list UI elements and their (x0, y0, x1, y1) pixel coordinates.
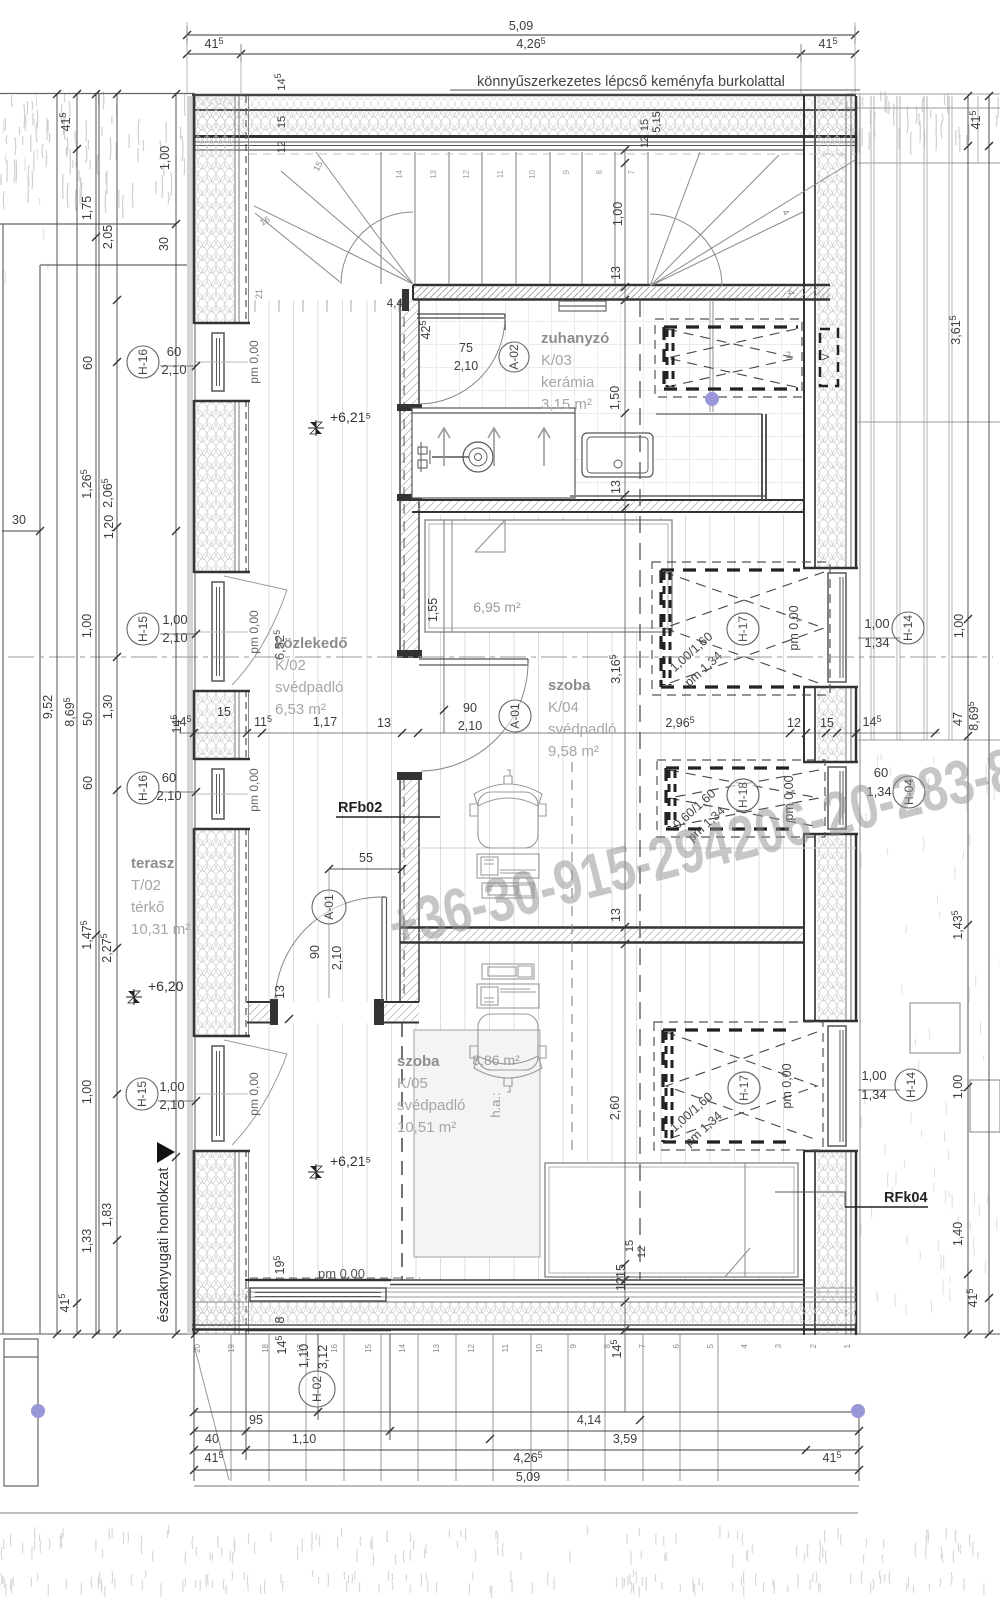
svg-text:1,83: 1,83 (100, 1203, 114, 1227)
svg-text:1,00: 1,00 (951, 1075, 965, 1099)
svg-text:18: 18 (261, 1343, 270, 1352)
labels window left a (160, 344, 200, 377)
level +6,21 szoba K05 (308, 1153, 371, 1180)
svg-text:13: 13 (273, 985, 287, 999)
svg-text:3,15 m²: 3,15 m² (541, 396, 592, 413)
right dim chain lines (968, 96, 989, 1334)
svg-text:10: 10 (535, 1343, 544, 1352)
labels window left b (160, 612, 200, 645)
ground streaks right side (860, 754, 1000, 1315)
window H-15 lower-left (194, 1036, 287, 1151)
svg-text:könnyűszerkezetes lépcső kemén: könnyűszerkezetes lépcső keményfa burkol… (477, 74, 785, 90)
svg-text:H-15: H-15 (136, 616, 150, 642)
svg-text:pm 0,00: pm 0,00 (247, 768, 261, 812)
svg-text:9: 9 (562, 169, 571, 174)
svg-text:RFb02: RFb02 (338, 800, 382, 816)
svg-text:15: 15 (624, 1240, 636, 1252)
door A-01 lower leaf and swing (275, 897, 387, 1002)
stair treads (381, 152, 648, 284)
bottom dim texts (205, 1413, 842, 1484)
svg-text:15: 15 (820, 716, 834, 730)
svg-text:2,10: 2,10 (159, 1097, 184, 1112)
svg-text:30: 30 (12, 513, 26, 527)
svg-text:2,05: 2,05 (101, 225, 115, 249)
wall shower-room bottom (412, 500, 803, 512)
wall layer dims top-left (273, 73, 288, 153)
svg-text:15: 15 (614, 1264, 628, 1278)
door A-01 upper leaf and swing (419, 659, 528, 771)
ground line 2 (0, 1512, 858, 1514)
circle H-16 b (127, 772, 159, 804)
svg-text:30: 30 (157, 237, 171, 251)
svg-text:zuhanyzó: zuhanyzó (541, 330, 609, 347)
svg-text:pm 0,00: pm 0,00 (780, 1063, 794, 1108)
svg-text:12: 12 (276, 141, 288, 153)
dim labels H-02 area (272, 1256, 624, 1370)
svg-text:1,40: 1,40 (951, 1222, 965, 1246)
svg-text:9,52: 9,52 (41, 695, 55, 719)
svg-text:1,00: 1,00 (861, 1068, 886, 1083)
labels window left c (156, 770, 200, 803)
lower-left planter rect (4, 1339, 38, 1486)
svg-text:V: V (820, 353, 832, 361)
svg-text:K/04: K/04 (548, 699, 579, 716)
svg-text:40: 40 (205, 1432, 219, 1446)
svg-text:14: 14 (395, 169, 404, 178)
terrace outline left outer (0, 224, 176, 1334)
svg-text:4: 4 (740, 1343, 749, 1348)
bathroom tile floor (420, 300, 803, 500)
dim 42/75/210 door A-02 (387, 298, 478, 373)
svg-text:8: 8 (273, 1316, 287, 1323)
right terrace planks (860, 96, 952, 1334)
svg-text:6,53 m²: 6,53 m² (275, 701, 326, 718)
svg-text:1,00: 1,00 (159, 1079, 184, 1094)
stair landing strip (413, 285, 830, 300)
svg-text:16: 16 (330, 1343, 339, 1352)
dim 55 door lower (325, 851, 406, 873)
labels window right a (858, 616, 900, 650)
svg-text:4,14: 4,14 (577, 1413, 601, 1427)
ground streaks far-left top (2, 94, 48, 284)
svg-text:térkő: térkő (131, 899, 164, 916)
skylight H-17 room K05 (654, 1022, 823, 1150)
circle H-14 b (895, 1069, 927, 1101)
svg-text:4,47: 4,47 (387, 298, 409, 310)
svg-text:12: 12 (639, 136, 651, 148)
niche under landing (559, 301, 606, 311)
shower area (570, 414, 766, 500)
circle H-16 a (127, 346, 159, 378)
svg-text:1,75: 1,75 (80, 196, 94, 220)
svg-text:5: 5 (706, 1343, 715, 1348)
door A-01 upper jambs (397, 650, 422, 780)
dim 90/210 door upper (440, 520, 482, 733)
svg-text:7: 7 (638, 1343, 647, 1348)
svg-text:1,20: 1,20 (102, 515, 116, 539)
window H-16 lower-left (194, 759, 250, 829)
svg-text:1,33: 1,33 (80, 1229, 94, 1253)
svg-text:H-17: H-17 (737, 1075, 751, 1101)
svg-text:terasz: terasz (131, 855, 174, 872)
svg-text:szoba: szoba (548, 677, 591, 694)
dim 30 small left (2, 513, 44, 535)
label terasz (131, 855, 190, 938)
svg-text:5,09: 5,09 (509, 19, 533, 33)
corridor wall (397, 300, 422, 1002)
dim line 5,09 top (183, 19, 859, 44)
svg-text:21: 21 (254, 289, 264, 299)
room K/04 floorboards (420, 515, 803, 927)
svg-text:13: 13 (609, 266, 623, 280)
svg-text:12: 12 (467, 1343, 476, 1352)
svg-text:1,00: 1,00 (158, 146, 172, 170)
svg-text:2,10: 2,10 (156, 788, 181, 803)
stair winder numbers (258, 159, 796, 295)
left dim chain lines (57, 94, 195, 1334)
svg-text:H-02: H-02 (310, 1376, 324, 1402)
svg-text:6: 6 (672, 1343, 681, 1348)
axis dash-dot line (8, 656, 993, 658)
bottom wall (192, 1280, 856, 1330)
window small right (803, 762, 858, 834)
wardrobe K/05 (414, 1030, 540, 1257)
svg-text:K/05: K/05 (397, 1075, 428, 1092)
desk and chair K/05 (470, 964, 546, 1092)
ground line across (0, 1333, 1000, 1335)
sink unit 2 (582, 433, 653, 477)
corridor end wall right part (270, 999, 419, 1025)
bottom deck edge line (194, 1485, 859, 1487)
skylight over stair (655, 319, 802, 397)
svg-text:pm 0,00: pm 0,00 (787, 605, 801, 650)
right terrace furniture rect 2 (970, 1080, 1000, 1132)
svg-text:1,50: 1,50 (608, 386, 622, 410)
svg-text:1,34: 1,34 (861, 1087, 886, 1102)
svg-text:15: 15 (217, 705, 231, 719)
svg-text:11: 11 (496, 169, 505, 178)
svg-text:7: 7 (627, 169, 636, 174)
interior dim line y733 (179, 729, 940, 737)
svg-text:1,10: 1,10 (297, 1344, 311, 1368)
svg-text:55: 55 (359, 851, 373, 865)
label szoba K04 (548, 677, 616, 760)
wall layer dims bottom (624, 1240, 648, 1258)
bottom deck planks (194, 1334, 718, 1481)
roofline dash K/05 (401, 1023, 403, 1280)
ground texture bottom strip (1, 1525, 984, 1598)
svg-text:1,00: 1,00 (611, 202, 625, 226)
svg-text:10: 10 (528, 169, 537, 178)
labels window right b (866, 765, 891, 799)
svg-text:60: 60 (167, 344, 181, 359)
svg-text:13: 13 (609, 480, 623, 494)
svg-text:RFk04: RFk04 (884, 1190, 928, 1206)
window H-02 bottom (245, 1278, 420, 1330)
svg-text:60: 60 (81, 776, 95, 790)
circle H-15 b (126, 1078, 158, 1110)
svg-text:H-14: H-14 (901, 615, 915, 641)
svg-text:A-02: A-02 (507, 344, 521, 370)
left dim ticks (53, 90, 199, 1338)
svg-text:svédpadló: svédpadló (397, 1097, 465, 1114)
svg-text:2,10: 2,10 (162, 630, 187, 645)
svg-text:8: 8 (595, 169, 604, 174)
svg-text:T/02: T/02 (131, 877, 161, 894)
bottom dim lines (194, 1334, 859, 1481)
svg-text:13: 13 (429, 169, 438, 178)
corner bottom-left wall (194, 1150, 246, 1330)
svg-text:1,34: 1,34 (864, 635, 889, 650)
mid wall between desks (400, 928, 803, 943)
svg-text:szoba: szoba (397, 1053, 440, 1070)
svg-text:pm 0,00: pm 0,00 (247, 610, 261, 654)
skylight outside part upper (820, 329, 838, 386)
svg-text:2: 2 (786, 350, 791, 360)
window H-14 upper-right (803, 568, 858, 687)
svg-text:95: 95 (249, 1413, 263, 1427)
svg-text:4: 4 (786, 290, 796, 295)
stair tread numbers (395, 169, 636, 178)
circle H-04 (893, 776, 925, 808)
beam line below landing (710, 300, 713, 412)
svg-text:2,10: 2,10 (458, 719, 482, 733)
svg-text:H-16: H-16 (136, 349, 150, 375)
room K/05 floorboards (420, 944, 803, 1022)
svg-text:90: 90 (308, 945, 322, 959)
svg-text:15: 15 (364, 1343, 373, 1352)
interior dim texts y733 (173, 714, 882, 730)
svg-text:északnyugati homlokzat: északnyugati homlokzat (156, 1168, 172, 1323)
vanity counter (412, 408, 575, 498)
vent arrows (438, 428, 550, 466)
svg-text:1,00: 1,00 (952, 614, 966, 638)
svg-text:60: 60 (162, 770, 176, 785)
svg-text:8,86 m²: 8,86 m² (472, 1052, 520, 1068)
svg-text:svédpadló: svédpadló (548, 721, 616, 738)
headroom dash line x572 (571, 762, 573, 1150)
label kozlekedo (275, 635, 348, 718)
svg-text:2,10: 2,10 (330, 946, 344, 970)
right terrace furniture square (910, 1003, 960, 1053)
label top note (450, 74, 860, 90)
svg-text:50: 50 (81, 712, 95, 726)
svg-text:12: 12 (636, 1246, 648, 1258)
under-stair flight below strip (255, 300, 399, 312)
bottom deck plank numbers (193, 1343, 852, 1352)
bed K/04 (425, 520, 672, 632)
section dash line x640 (639, 300, 641, 1280)
window H-14 lower-right (803, 1021, 858, 1151)
svg-text:47: 47 (951, 712, 965, 726)
svg-text:75: 75 (459, 341, 473, 355)
svg-text:10,31 m²: 10,31 m² (131, 921, 190, 938)
label RFk04 (775, 1190, 928, 1207)
svg-text:11: 11 (501, 1343, 510, 1352)
svg-text:pm 0,00: pm 0,00 (247, 1072, 261, 1116)
svg-text:13: 13 (377, 716, 391, 730)
svg-text:10,51 m²: 10,51 m² (397, 1119, 456, 1136)
room faint line y848 (400, 847, 856, 849)
circle A-01 lower (312, 890, 346, 924)
svg-text:1,30: 1,30 (101, 695, 115, 719)
right terrace top planks (871, 96, 989, 163)
center dim texts (608, 202, 628, 1291)
svg-text:3,12: 3,12 (316, 1345, 330, 1369)
wall layer dims top-right (639, 111, 663, 148)
circle H-02 (299, 1371, 335, 1407)
bottom dim ticks (190, 1408, 863, 1474)
desk and chair K/04 (470, 770, 546, 898)
level +6,21 corridor (308, 409, 371, 436)
center dim chain (621, 146, 629, 1412)
svg-text:2,60: 2,60 (608, 1096, 622, 1120)
dim line 41-426-41 top (183, 36, 859, 62)
svg-text:kerámia: kerámia (541, 374, 595, 391)
svg-text:5,09: 5,09 (516, 1470, 540, 1484)
stair right winder (650, 152, 855, 286)
top wall (192, 95, 856, 150)
svg-text:14: 14 (398, 1343, 407, 1352)
svg-text:2: 2 (809, 1343, 818, 1348)
svg-text:H-17: H-17 (736, 616, 750, 642)
svg-text:1,00: 1,00 (80, 1080, 94, 1104)
level +6,20 terasz (126, 978, 184, 1005)
svg-text:3: 3 (774, 1343, 783, 1348)
purple dot 1 (705, 392, 719, 406)
svg-text:2,10: 2,10 (161, 362, 186, 377)
svg-text:+6,20: +6,20 (148, 978, 184, 994)
label RFb02 (336, 800, 440, 817)
labels window left d (158, 1079, 200, 1112)
door A-02 leaf and swing (402, 289, 505, 404)
right terrace edges (846, 94, 1000, 740)
label pm000 windows (247, 340, 261, 1116)
svg-text:1,00: 1,00 (162, 612, 187, 627)
svg-text:pm 0,00: pm 0,00 (318, 1266, 365, 1281)
svg-text:6,95 m²: 6,95 m² (473, 599, 521, 615)
svg-text:1,00: 1,00 (864, 616, 889, 631)
svg-text:A-01: A-01 (322, 894, 336, 920)
svg-text:A-01: A-01 (508, 703, 522, 729)
svg-text:1: 1 (843, 1343, 852, 1348)
purple dot 2 (31, 1404, 45, 1418)
right wall (804, 96, 856, 1335)
label szoba K05 (397, 1053, 465, 1136)
bottom deck diagonal (194, 1345, 229, 1480)
svg-text:+6,21⁵: +6,21⁵ (330, 409, 371, 425)
svg-text:5,15: 5,15 (651, 111, 663, 132)
labels window right c (858, 1068, 900, 1102)
roof texture top-left (1, 90, 185, 218)
svg-text:60: 60 (81, 356, 95, 370)
svg-text:1,00: 1,00 (80, 614, 94, 638)
window H-16 upper-left (194, 323, 250, 401)
left wall (187, 96, 249, 1335)
corridor end wall left part (247, 1002, 275, 1023)
svg-text:h.a.:: h.a.: (488, 1092, 503, 1117)
svg-text:9,58 m²: 9,58 m² (548, 743, 599, 760)
svg-text:pm 0,00: pm 0,00 (247, 340, 261, 384)
svg-text:K/03: K/03 (541, 352, 572, 369)
purple dot 3 (851, 1404, 865, 1418)
facade triangle (157, 1142, 175, 1163)
svg-text:2,10: 2,10 (454, 359, 478, 373)
svg-text:15: 15 (276, 116, 288, 128)
right dim texts (948, 111, 983, 1308)
stair tread top dashes (249, 153, 856, 155)
bed K/05 (545, 1163, 798, 1277)
left dim texts (41, 113, 184, 1313)
svg-text:H-15: H-15 (135, 1081, 149, 1107)
skylight H-17 room K04 (652, 562, 830, 695)
svg-text:15: 15 (639, 119, 651, 131)
svg-text:+6,21⁵: +6,21⁵ (330, 1153, 371, 1169)
stair left winder (254, 152, 413, 284)
svg-text:12: 12 (614, 1277, 628, 1291)
roof texture top-right (847, 91, 999, 155)
svg-text:1,55: 1,55 (426, 598, 440, 622)
label zuhanyzo (541, 330, 609, 413)
svg-text:13: 13 (609, 908, 623, 922)
svg-text:12: 12 (462, 169, 471, 178)
svg-text:19: 19 (227, 1343, 236, 1352)
skylight H-18 (657, 760, 825, 844)
right dim ticks (964, 92, 993, 1338)
washbasin (418, 442, 493, 472)
extension lines top (187, 22, 855, 95)
terrace outline left inner (40, 265, 193, 1334)
svg-text:1,10: 1,10 (292, 1432, 316, 1446)
svg-text:90: 90 (463, 701, 477, 715)
circle A-02 (499, 342, 529, 372)
svg-text:H-16: H-16 (136, 775, 150, 801)
corridor floorboards (249, 300, 400, 1002)
svg-text:12: 12 (787, 716, 801, 730)
svg-text:9: 9 (569, 1343, 578, 1348)
dim 90/210 door lower (273, 869, 344, 1023)
circle H-15 a (127, 613, 159, 645)
circle A-01 upper (499, 700, 531, 732)
svg-text:H-14: H-14 (904, 1072, 918, 1098)
eave line top (0, 93, 195, 95)
svg-text:13: 13 (432, 1343, 441, 1352)
circle H-14 a (892, 612, 924, 644)
window H-15 upper-left (194, 572, 287, 691)
svg-text:3,59: 3,59 (613, 1432, 637, 1446)
svg-text:svédpadló: svédpadló (275, 679, 343, 696)
